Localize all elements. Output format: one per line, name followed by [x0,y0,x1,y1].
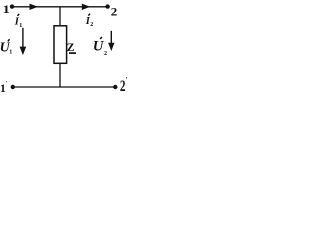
svg-text:′: ′ [6,80,8,87]
wire stub from top wire to Z [59,7,61,26]
current arrow I2 [82,4,90,10]
dot of U1 [8,39,10,41]
svg-text:1: 1 [19,23,22,29]
voltage arrow U2 [110,31,112,44]
dot of I2 [88,14,90,16]
dot of I1 [18,14,20,16]
wire stub from Z to bottom wire [59,63,61,87]
impedance Z box [54,26,67,64]
svg-text:2: 2 [111,5,117,18]
svg-text:1: 1 [3,2,10,15]
terminal dot 2 [105,4,109,8]
underline of Z [69,52,76,54]
terminal dot 2' [113,85,117,89]
current arrow I1 [30,4,39,10]
svg-text:′: ′ [126,76,128,84]
svg-text:1: 1 [9,49,12,55]
wire top (node 1 to node 2) [12,6,108,8]
dot of U2 [100,37,102,39]
terminal dot 1 [10,4,14,8]
voltage arrow U1 [22,28,24,48]
terminal dot 1' [11,85,15,89]
svg-text:2: 2 [104,51,107,57]
wire bottom (node 1' to node 2') [13,86,116,88]
svg-text:2: 2 [90,22,93,28]
